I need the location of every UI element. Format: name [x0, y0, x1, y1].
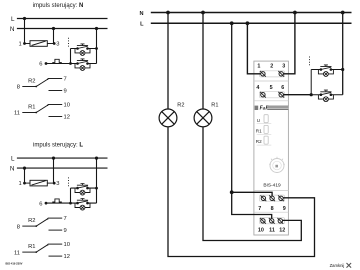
close label Zamknij	[330, 263, 351, 268]
svg-text:N: N	[139, 11, 143, 17]
svg-text:N: N	[10, 165, 15, 172]
node: mains to buttons	[95, 157, 98, 160]
node	[95, 187, 98, 190]
lamp R2	[159, 103, 184, 127]
node	[341, 68, 344, 71]
wire: down to pin3	[53, 158, 55, 183]
svg-text:impuls sterujący: N: impuls sterujący: N	[33, 3, 84, 9]
wire: N line	[151, 12, 352, 14]
wire: down to pin1	[24, 168, 26, 183]
screw pin 6	[278, 92, 284, 98]
svg-text:12: 12	[64, 254, 70, 260]
pulse symbol	[52, 59, 62, 62]
wire from pin 6	[46, 202, 71, 204]
svg-text:6: 6	[39, 201, 42, 207]
node	[69, 62, 72, 65]
wire: buttons left vertical	[70, 49, 72, 64]
terminal strip 4-6	[260, 92, 285, 98]
svg-text:1: 1	[257, 64, 260, 70]
relay contact R1	[14, 103, 70, 121]
ellipsis dotted wire	[68, 38, 70, 48]
screw pin 4	[260, 92, 266, 98]
wire: N line	[17, 167, 108, 169]
lamp R1	[194, 103, 218, 127]
svg-text:9: 9	[64, 228, 67, 234]
pulse symbol	[52, 199, 62, 202]
wire: top branch	[71, 48, 97, 50]
svg-text:R2: R2	[256, 139, 262, 144]
svg-text:impuls sterujący: L: impuls sterujący: L	[33, 143, 83, 149]
node: N to lamp R1	[201, 11, 205, 15]
wire: N down to lamp R1	[202, 13, 204, 110]
illuminated button	[75, 184, 90, 196]
LED U	[257, 115, 272, 124]
node: branch to pin8	[230, 190, 234, 194]
wire: pin6 to buttons	[283, 94, 311, 96]
svg-text:7: 7	[64, 77, 67, 83]
svg-text:12: 12	[64, 115, 70, 121]
svg-text:4: 4	[256, 85, 259, 91]
svg-text:L: L	[140, 22, 144, 28]
svg-text:10: 10	[64, 103, 70, 109]
svg-text:6: 6	[281, 85, 284, 91]
svg-text:11: 11	[14, 111, 20, 117]
svg-text:1: 1	[18, 181, 21, 187]
svg-text:7: 7	[258, 206, 261, 212]
pin 3	[53, 42, 56, 45]
svg-text:7: 7	[64, 216, 67, 222]
node: N to pin3	[293, 11, 297, 15]
svg-text:5: 5	[270, 85, 273, 91]
wire from pin 6	[46, 63, 71, 65]
svg-text:11: 11	[269, 227, 275, 233]
wire: L down to pin1	[247, 23, 260, 74]
svg-text:BIS-419 230V: BIS-419 230V	[6, 261, 23, 265]
node: mains to pin3	[52, 157, 55, 160]
svg-text:9: 9	[283, 206, 286, 212]
wire: N down to lamp R2	[167, 13, 169, 110]
LED R1	[256, 125, 271, 134]
terminal strip 7-9	[260, 195, 285, 201]
terminal strip 1-3	[260, 71, 285, 77]
screw pin 11	[269, 218, 275, 224]
ellipsis dotted wire	[309, 57, 311, 67]
svg-text:BIS-419: BIS-419	[263, 182, 281, 188]
svg-text:R2: R2	[28, 218, 35, 224]
screw pin 10	[260, 218, 266, 224]
node: N to buttons	[341, 11, 345, 15]
node	[310, 93, 313, 96]
screw pin 12	[277, 218, 283, 224]
svg-text:R2: R2	[177, 103, 184, 109]
illuminated button	[75, 199, 90, 211]
svg-text:10: 10	[258, 227, 264, 233]
screw pin 8	[269, 195, 275, 201]
relay contact R2	[17, 77, 67, 95]
svg-text:8: 8	[17, 85, 20, 91]
svg-text:R1: R1	[256, 129, 262, 134]
svg-text:3: 3	[56, 181, 59, 187]
svg-text:Zamknij: Zamknij	[330, 263, 345, 268]
node: N to lamp R2	[166, 11, 170, 15]
relay coil input 1-3	[30, 41, 47, 47]
wire: buttons right vertical from N	[342, 13, 344, 95]
svg-text:10: 10	[64, 242, 70, 248]
svg-text:R1: R1	[28, 105, 35, 111]
wire: buttons left vertical	[310, 70, 312, 95]
wire	[47, 43, 54, 45]
wire: branch to pin8	[232, 192, 272, 196]
illuminated button	[318, 65, 333, 77]
node: mains to pin1	[23, 17, 26, 20]
wire: bottom branch	[311, 94, 343, 96]
wire: bottom branch	[71, 63, 97, 65]
relay contact R1	[14, 242, 70, 260]
svg-text:R1: R1	[211, 103, 218, 109]
svg-text:11: 11	[14, 250, 20, 256]
svg-text:L: L	[11, 16, 15, 23]
wire: L line	[17, 18, 108, 20]
wire	[47, 182, 54, 184]
wire: bottom branch	[71, 202, 97, 204]
wire: L line	[151, 22, 352, 24]
wire: top branch	[311, 69, 343, 71]
svg-text:L: L	[11, 155, 15, 162]
node: L to pin1	[246, 21, 250, 25]
screw pin 9	[278, 195, 284, 201]
svg-text:2: 2	[270, 64, 273, 70]
wire: buttons right vertical	[96, 158, 98, 203]
node	[69, 202, 72, 205]
wire: lamp R1 to pin12	[203, 127, 301, 241]
pin 3	[53, 182, 56, 185]
relay contact R2	[17, 216, 67, 234]
svg-text:R1: R1	[28, 244, 35, 250]
ellipsis dotted wire	[68, 177, 70, 187]
node	[95, 47, 98, 50]
screw pin 1	[260, 71, 266, 77]
F&F logo	[255, 106, 289, 112]
svg-text:8: 8	[271, 206, 274, 212]
terminal strip 10-12	[260, 218, 285, 224]
svg-text:8: 8	[17, 224, 20, 230]
node: mains to pin3	[52, 27, 55, 30]
svg-text:12: 12	[279, 227, 285, 233]
svg-text:N: N	[10, 26, 15, 33]
wire: N down to pin3	[283, 13, 295, 74]
wire: down to pin3	[53, 29, 55, 44]
wire: lamp R2 to pin9	[168, 127, 315, 257]
screw pin 7	[261, 195, 267, 201]
wire: L line	[17, 157, 108, 159]
svg-text:U: U	[257, 118, 260, 123]
wire	[25, 182, 31, 184]
wire: L down to pins 8 and 11	[232, 23, 272, 218]
node: mains to buttons	[95, 27, 98, 30]
svg-text:1: 1	[18, 42, 21, 48]
svg-text:3: 3	[282, 64, 285, 70]
svg-text:9: 9	[64, 89, 67, 95]
LED R2	[256, 136, 271, 145]
illuminated button	[318, 90, 333, 102]
svg-text:R2: R2	[28, 79, 35, 85]
illuminated button	[75, 44, 90, 56]
wire: N line	[17, 28, 108, 30]
wire	[25, 43, 31, 45]
adjustment knob	[269, 157, 285, 173]
wire: buttons left vertical	[70, 188, 72, 203]
wire: down to pin1	[24, 19, 26, 44]
svg-text:6: 6	[39, 62, 42, 68]
wire: top branch	[71, 187, 97, 189]
illuminated button	[75, 59, 90, 71]
screw pin 3	[278, 71, 284, 77]
device BIS-419 housing	[254, 61, 289, 235]
wire: buttons right vertical	[96, 29, 98, 64]
node: mains to pin1	[23, 167, 26, 170]
relay coil input 1-3	[30, 180, 47, 186]
node: L to pins 8 11	[230, 21, 234, 25]
svg-text:3: 3	[56, 42, 59, 48]
